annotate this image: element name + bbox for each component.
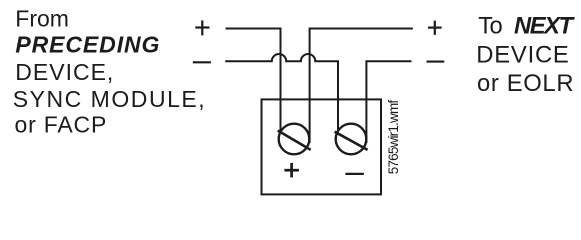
wire: outgoing + wire from terminal 1 [310,29,413,144]
svg-text:NEXT: NEXT [514,13,575,40]
node: + terminal label inside box [284,163,299,178]
svg-text:SYNC MODULE,: SYNC MODULE, [13,86,205,112]
svg-text:To: To [478,13,503,40]
svg-text:or EOLR: or EOLR [477,70,574,97]
terminal screw 1 slot [278,131,311,150]
node: + polarity (outgoing, right) [428,21,442,35]
node: From PRECEDING DEVICE label [13,6,205,138]
device box (notification appliance) [262,99,382,194]
terminal screw 1 (+) [279,124,310,155]
svg-text:DEVICE: DEVICE [476,42,569,69]
wire: outgoing - wire from terminal 2 [366,61,411,143]
node: - polarity (incoming, left) [193,61,211,63]
svg-text:or FACP: or FACP [15,112,107,138]
node: - terminal label inside box [345,173,363,175]
node: + polarity (incoming, left) [195,20,209,35]
wire: incoming + wire to terminal 1 [226,29,281,135]
terminal screw 2 slot [335,132,368,150]
node: To NEXT DEVICE label [476,13,575,97]
svg-text:DEVICE,: DEVICE, [15,59,113,85]
node: - polarity (outgoing, right) [427,61,445,63]
svg-text:5765wir1.wmf: 5765wir1.wmf [386,100,401,175]
svg-text:PRECEDING: PRECEDING [15,31,159,57]
svg-text:From: From [15,6,69,32]
wire: incoming - wire to terminal 2 (with crossover humps) [225,54,338,133]
terminal screw 2 (-) [336,124,367,155]
